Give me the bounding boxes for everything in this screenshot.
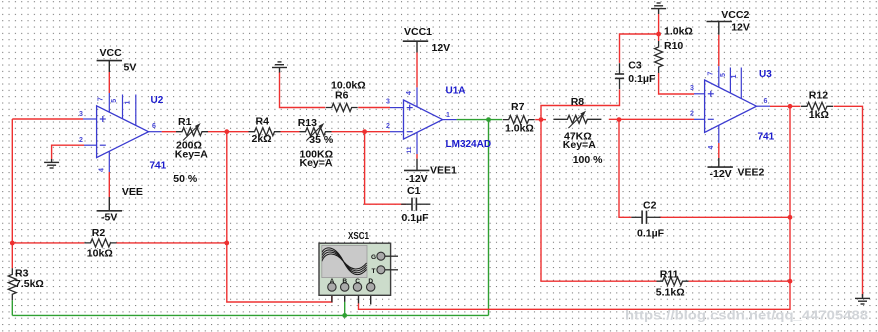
svg-text:741: 741 [150,161,167,172]
svg-text:XSC1: XSC1 [348,231,369,242]
svg-text:7: 7 [707,71,714,75]
svg-text:R4: R4 [256,115,270,127]
svg-text:11: 11 [406,146,413,153]
svg-text:100 %: 100 % [573,154,603,166]
svg-text:4: 4 [99,168,106,172]
svg-text:-12V: -12V [406,173,428,185]
svg-text:7: 7 [98,97,105,101]
svg-text:5V: 5V [124,62,137,74]
resistor R12 [801,89,833,121]
svg-text:3: 3 [386,99,390,106]
svg-text:1.0kΩ: 1.0kΩ [505,123,534,135]
power VCC [97,47,137,74]
wire VCC1 stem black [416,41,418,52]
wire left rail vertical [11,119,13,243]
node C2 / output [788,215,793,220]
capacitor C3 [615,59,656,89]
wire scope B stub black [344,291,346,302]
wire R1 to R4 [208,131,249,133]
svg-text:6: 6 [152,123,156,130]
resistor R1 potentiometer [173,116,208,185]
wire green vertical [488,120,490,316]
node R8 / U3 - / C2 [617,117,622,122]
svg-text:VEE: VEE [122,186,143,198]
wire to R3 [11,243,13,268]
svg-text:7.5kΩ: 7.5kΩ [15,278,44,290]
wire G2 stub black [279,67,281,72]
svg-text:1: 1 [446,112,450,119]
wire R7 to R8 [535,119,546,121]
svg-text:5: 5 [111,99,118,103]
svg-text:R2: R2 [92,227,106,239]
svg-text:VCC2: VCC2 [721,9,749,21]
wire ground to R6 [280,72,326,108]
wire G3 stub black [658,9,660,14]
wire output node to scope C [359,106,791,309]
svg-text:0.1µF: 0.1µF [628,73,656,85]
wire U3 pin4 to VEE2 [718,143,720,158]
svg-text:1.0kΩ: 1.0kΩ [664,25,693,37]
wire VCC1 to U1A pin4 [416,53,418,88]
node R2 / scope A [224,241,229,246]
resistor R7 [503,101,535,135]
wire R10 to U3 + [659,73,694,94]
wire U2 - to ground [52,145,84,159]
wire R8 to U3 - [609,118,694,120]
svg-text:R13: R13 [298,117,317,129]
resistor R13 potentiometer [298,117,334,169]
svg-text:4: 4 [406,91,413,95]
wire G4 stub black [862,294,864,298]
wire ground stub black [51,159,53,162]
svg-text:Key=A: Key=A [300,157,333,169]
resistor R10 [655,25,693,73]
resistor R2 [85,227,117,259]
resistor R6 [326,79,366,111]
wire U1A out to R7 [457,119,503,121]
power VEE [97,186,143,224]
svg-text:2: 2 [690,111,694,118]
node green bus / scope B [342,313,347,318]
svg-text:U2: U2 [151,95,164,106]
wire R7R8 node to R11 [541,120,657,282]
wire VCC2 stem black [718,22,720,35]
resistor R8 potentiometer [553,96,603,166]
node R11 / output [788,279,793,284]
svg-text:G: G [371,254,376,261]
svg-text:-5V: -5V [101,212,117,224]
svg-text:R6: R6 [335,90,349,102]
wire R3 to green bus [11,300,13,315]
wire C3 top to R10 node [620,34,659,63]
svg-text:C3: C3 [628,59,642,71]
svg-text:VCC1: VCC1 [404,26,432,38]
wire VEE stem black [108,197,110,211]
ground G3 (R10 top) [651,3,666,9]
power VCC2 [707,9,750,33]
wire R11 to output node [689,280,791,282]
wire U3 out to R12 [770,105,801,107]
op-amp U1A triangle [404,100,443,139]
svg-text:6: 6 [764,98,768,105]
ground G2 (R6 input) [272,62,287,68]
svg-text:R8: R8 [571,96,585,108]
wire U2 + input [12,118,83,120]
power VEE2 [708,166,765,180]
svg-text:-12V: -12V [710,168,732,180]
svg-text:U3: U3 [759,69,772,80]
capacitor C2 [631,200,664,240]
wire R13 to U1A - [332,131,391,133]
svg-text:1: 1 [124,100,131,104]
svg-text:C: C [355,278,360,285]
svg-text:A: A [330,278,335,285]
svg-text:741: 741 [758,132,775,143]
ground G4 (right) [855,298,870,304]
wire VEE2 stem black [718,158,720,167]
wire C2 to output node [659,216,790,218]
node left rail / R2 [10,241,15,246]
svg-text:12V: 12V [731,21,750,33]
svg-text:5: 5 [720,73,727,77]
svg-text:2: 2 [79,137,83,144]
svg-text:0.1µF: 0.1µF [402,212,430,224]
wire R2 left [12,242,84,244]
node R7 / R8 / C3 / R11 [539,117,544,122]
svg-text:D: D [368,278,373,285]
svg-text:U1A: U1A [446,86,466,97]
op-amp U3 pins and labels [690,66,775,149]
svg-text:R12: R12 [809,89,828,101]
svg-text:12V: 12V [432,42,451,54]
wire U1A - to C1 [365,132,406,205]
wire R2 right [117,242,227,244]
svg-text:4: 4 [708,145,715,149]
wire green bottom bus [12,314,488,316]
wire VCC to U2 pin7 [108,72,110,93]
wire VEE1 stem black [416,159,418,171]
wire R4 to R13 [281,131,300,133]
node C3 / R10 / ground [656,32,661,37]
ground G1 (U2 minus) [44,162,59,168]
svg-text:3: 3 [79,111,83,118]
wire scope A stub black [331,291,333,302]
wire VCC stem black [108,61,110,72]
node R1 / R4 [224,129,229,134]
op-amp U2 pins and labels [79,93,167,172]
node U1A - / C1 [362,129,367,134]
svg-text:R7: R7 [511,101,525,113]
wire scope D stub [370,291,372,305]
resistor R11 [656,268,689,298]
wire U2 out to R1 [162,131,176,133]
wire R12 to ground right [834,106,863,296]
resistor R3 [8,267,44,300]
svg-text:R11: R11 [660,268,679,280]
svg-text:5.1kΩ: 5.1kΩ [656,287,685,299]
wire R6 to U1A + [358,107,390,109]
svg-text:T: T [372,268,376,275]
power VEE1 [404,165,457,185]
wire scope B to green bus [344,302,346,316]
wire U1A pin11 to VEE1 [416,154,418,159]
capacitor C1 [401,185,430,224]
svg-text:VEE2: VEE2 [738,166,765,178]
svg-text:VEE1: VEE1 [430,165,457,177]
svg-text:3: 3 [690,85,694,92]
op-amp U3 triangle [705,80,757,132]
svg-text:0.1µF: 0.1µF [637,228,665,240]
svg-text:Key=A: Key=A [563,139,596,151]
power VCC1 [403,26,450,54]
svg-text:Key=A: Key=A [175,148,208,160]
svg-text:35 %: 35 % [309,134,334,146]
svg-text:LM324AD: LM324AD [446,139,492,150]
svg-text:1: 1 [731,74,738,78]
op-amp U2 triangle [97,106,149,158]
svg-text:2kΩ: 2kΩ [252,133,272,145]
svg-text:VCC: VCC [100,47,123,59]
svg-text:B: B [342,278,347,285]
wire U3 - node to C2 [619,120,631,218]
op-amp U1A pins and labels [386,86,491,155]
wire scope C stub black [358,291,360,303]
svg-text:C2: C2 [643,200,657,212]
wire U2 pin4 to VEE [108,172,110,197]
svg-text:C1: C1 [407,185,421,197]
wire junction to C3 bottom [541,90,620,120]
svg-text:R1: R1 [178,116,192,128]
svg-text:2: 2 [386,123,390,130]
wire ground to R10 [658,14,660,41]
node U1A out (green) [486,117,491,122]
oscilloscope XSC1 [319,231,398,295]
svg-text:R10: R10 [664,40,683,52]
svg-text:1kΩ: 1kΩ [809,109,829,121]
svg-text:50 %: 50 % [173,173,198,185]
wire VCC2 to U3 pin7 [718,35,720,66]
svg-text:10kΩ: 10kΩ [87,247,113,259]
wire node to scope A [227,132,332,302]
resistor R4 [249,115,281,145]
node U3 out / R12 [788,104,793,109]
